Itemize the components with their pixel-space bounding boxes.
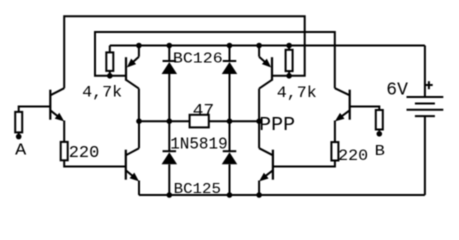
arrow: Q6 emitter [259,173,269,182]
svg-text:4,7k: 4,7k [82,84,122,102]
svg-text:BC125: BC125 [174,181,221,198]
svg-text:B: B [375,143,385,160]
node: top rail / Q5 emitter [256,43,262,49]
node: middle rail / D2-D4 [227,118,233,124]
transistor Q5 (upper-right PNP, mirrored) [259,57,272,89]
wire: outer cross-coupling loop (Q1 collector to right base node) [64,16,305,88]
wire: top rail stub into right 4,7k resistor [288,46,290,50]
wire: Q5 emitter to top rail [258,46,260,57]
wire: input B resistor to terminal dot [378,130,380,132]
wire: inner cross-coupling loop (left base node to Q4 collector) [95,32,335,88]
transistor Q2 (upper-left PNP) [126,57,139,89]
diode D1 (upper left) [162,46,178,122]
battery BT1 6V [407,46,444,196]
wire: input A resistor to terminal dot [18,132,20,134]
wire: bottom supply rail [139,194,425,196]
resistor at input B [376,110,383,130]
wire: Q5 collector to middle rail [258,89,260,122]
resistor R 4,7k (right) [286,50,293,71]
resistor R 47 (horizontal, on middle rail) [190,115,209,128]
resistor R 220 (left) [61,142,68,160]
wire: Q3 emitter to bottom rail [138,181,140,196]
node: terminal A junction dot [16,134,22,140]
wire: Q3 collector up to middle rail [138,121,140,148]
node: right base node junction [286,73,292,79]
node: middle rail / Q5-Q6 collectors [256,118,262,124]
node: top rail / D1 [167,43,173,49]
wire: Q6 emitter to bottom rail [258,181,260,196]
node: middle rail / D1-D3 [167,118,173,124]
wire: Q4 emitter down to right 220 resistor [334,121,336,143]
wire: Q2 emitter to top rail [138,46,140,57]
wire: middle rail left segment [139,120,190,122]
wire: Q4 base to terminal B [350,107,380,111]
node: left base node junction [107,73,113,79]
node: top rail / right 4,7k [286,43,292,49]
diode D3 (lower left) [162,121,178,195]
arrow: Q4 emitter [335,113,345,122]
svg-text:BC126: BC126 [173,51,223,68]
svg-text:1N5819: 1N5819 [170,136,228,155]
wire: left 220 resistor to Q3 base [64,160,126,166]
transistor Q4 (right output NPN, mirrored) [335,88,350,120]
wire: Q1 emitter down to left 220 resistor [63,121,65,142]
wire: middle rail right segment [209,120,259,122]
transistor Q6 (lower-right NPN, mirrored) [259,148,273,180]
wire: top rail stub into left 4,7k resistor [109,46,111,53]
node: top rail / Q2 emitter [136,43,142,49]
battery plus sign [425,81,433,89]
node: bottom rail / D3 [167,192,173,198]
wire: right 4,7k to base node [288,71,290,76]
arrow: Q2 emitter (points into bar) [127,59,136,68]
wire: Q2 collector to middle rail [138,89,140,122]
wire: top supply rail [110,45,425,47]
resistor at input A [15,112,22,132]
arrow: Q3 emitter [130,173,139,182]
wire: Q6 collector up to middle rail [258,121,260,148]
resistor R 4,7k (left) [106,52,113,71]
svg-text:47: 47 [193,102,215,121]
node: middle rail / Q2-Q3 collectors [136,118,142,124]
node: terminal B junction dot [377,131,383,137]
svg-text:6V: 6V [386,80,408,100]
wire: right 220 resistor to Q6 base [273,161,335,167]
svg-text:4,7k: 4,7k [277,84,317,102]
wire: left 4,7k to base node [109,71,111,76]
svg-text:220: 220 [69,144,100,163]
transistor Q3 (lower-left NPN) [126,148,139,180]
node: bottom rail / Q6 emitter [256,192,262,198]
diode D4 (lower right) [222,121,238,195]
arrow: Q5 emitter (points into bar) [262,59,271,68]
node: top rail / D2 [227,43,233,49]
svg-text:PPP: PPP [259,114,295,136]
resistor R 220 (right) [331,142,338,160]
transistor Q1 (left output NPN) [50,88,64,120]
arrow: Q1 emitter [55,113,64,122]
diode D2 (upper right) [222,46,238,122]
svg-text:A: A [15,141,27,160]
svg-text:220: 220 [338,147,368,165]
wire: terminal A lead to Q1 base [19,107,51,112]
node: bottom rail / D4 [227,192,233,198]
